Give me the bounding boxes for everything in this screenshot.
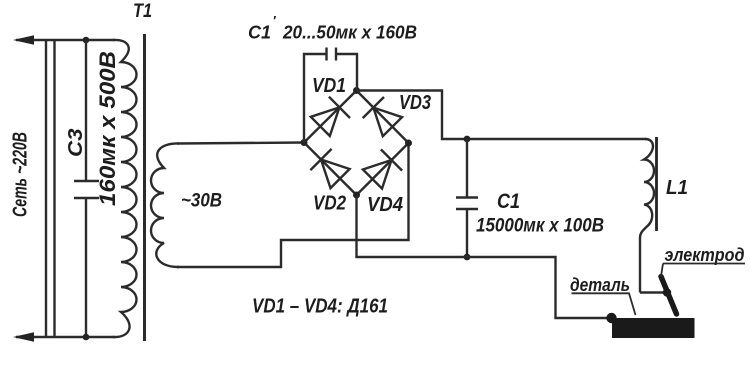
svg-text:VD3: VD3 [399, 92, 431, 114]
wire L1 to electrode holder [640, 291, 667, 293]
diode VD4 [363, 149, 402, 188]
electrode rod [661, 277, 677, 315]
wire C1' right lead [336, 54, 357, 91]
diode VD2 [310, 149, 349, 188]
svg-text:деталь: деталь [570, 275, 630, 295]
svg-text:Сеть ~220В: Сеть ~220В [10, 132, 32, 217]
wire C3 upper lead [85, 40, 87, 181]
wire bridge top to dc plus rail [357, 91, 647, 140]
transformer T1 primary winding [113, 40, 137, 337]
electrode holder node [663, 288, 671, 296]
node bridge left [301, 139, 308, 146]
wire mains vertical 2 [53, 40, 55, 337]
transformer T1 secondary winding [151, 143, 179, 267]
inductor L1 core [655, 137, 658, 231]
svg-text:C1: C1 [497, 190, 520, 213]
inductor L1 winding [640, 139, 654, 293]
leader электрод [661, 264, 745, 277]
svg-text:VD2: VD2 [313, 193, 346, 215]
diode VD3 [363, 97, 402, 136]
node C1 top [464, 136, 471, 143]
svg-text:160мк х 500В: 160мк х 500В [95, 51, 120, 206]
wire bridge bottom to dc minus rail [357, 195, 613, 318]
diode VD1 [311, 97, 350, 136]
node bridge top [353, 87, 360, 94]
wire C1' left lead [304, 54, 327, 143]
svg-text:VD1 – VD4: Д161: VD1 – VD4: Д161 [252, 296, 388, 318]
capacitor C3 [74, 181, 99, 198]
svg-text:VD1: VD1 [312, 75, 346, 97]
wire C3 lower lead [85, 198, 87, 337]
svg-text:15000мк х 100В: 15000мк х 100В [476, 216, 604, 237]
bridge diamond wires [304, 91, 409, 196]
wire mains vertical 1 [45, 40, 47, 337]
node C3 top [83, 37, 90, 44]
node C1 bottom [464, 254, 471, 261]
node C3 bottom [83, 334, 90, 341]
wire C1 bottom lead [466, 209, 468, 257]
arrow top mains [13, 35, 34, 45]
svg-text:электрод: электрод [665, 245, 745, 265]
node workpiece terminal [606, 313, 616, 323]
leader деталь [572, 293, 636, 315]
svg-text:T1: T1 [133, 1, 152, 22]
wire C1 top lead [466, 139, 468, 198]
node bridge bottom [353, 192, 360, 199]
svg-text:C3: C3 [65, 129, 87, 158]
wire secondary top to bridge [177, 143, 304, 144]
wire top mains rail [16, 39, 115, 41]
svg-text:L1: L1 [666, 177, 688, 199]
capacitor C1' [327, 48, 337, 61]
transformer T1 core [143, 34, 146, 341]
workpiece bar [612, 318, 695, 338]
arrow bottom mains [13, 332, 34, 342]
svg-text:20...50мк х 160В: 20...50мк х 160В [282, 23, 417, 43]
svg-text:~30В: ~30В [181, 191, 222, 212]
svg-text:C1: C1 [248, 23, 271, 43]
svg-text:VD4: VD4 [367, 194, 403, 216]
capacitor C1 [456, 198, 478, 210]
wire secondary bottom with step to bridge right node [177, 143, 409, 267]
wire bottom mains rail [16, 336, 115, 338]
node bridge right [405, 140, 412, 147]
